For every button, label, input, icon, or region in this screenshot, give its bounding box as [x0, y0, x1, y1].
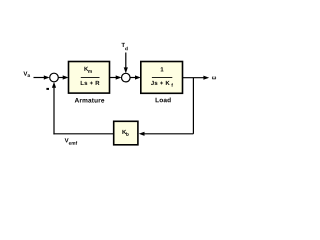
wire: Armature to summing junction S2: [110, 75, 122, 79]
output label omega: [212, 76, 216, 79]
label Armature: [75, 98, 105, 103]
input label Va: [23, 71, 30, 76]
wire: feedback into Kb block: [139, 132, 194, 136]
label Vemf: [65, 138, 78, 144]
disturbance torque label Td: [121, 43, 127, 50]
block U1 Armature transfer function Km/(Ls+R): [69, 62, 110, 94]
wire: S2 to Load block: [130, 75, 141, 79]
block U2 Load transfer function 1/(Js+Kf): [141, 62, 183, 94]
wire: Td down into S2: [124, 53, 128, 74]
wire: feedback up into S1: [52, 82, 56, 134]
minus sign at S1 feedback input: [46, 88, 49, 90]
wire: Kb output leftwards: [53, 133, 113, 135]
summing junction S2: [122, 73, 131, 82]
wire: Load to output omega: [183, 76, 210, 80]
block U3 back-emf gain Kb: [114, 121, 138, 145]
wire: S1 to Armature block: [58, 75, 68, 79]
label Load: [156, 97, 171, 102]
wire: Va input to summing junction S1: [34, 75, 50, 79]
wire: feedback tap node down from output line: [192, 78, 194, 134]
summing junction S1: [50, 73, 59, 82]
